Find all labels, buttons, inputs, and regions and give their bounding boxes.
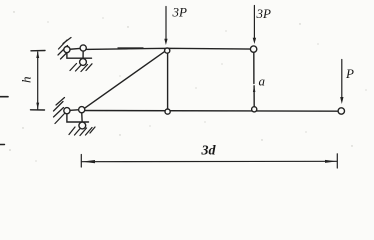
bottom support roller pin	[79, 122, 86, 129]
bottom support link wall pin to joint	[67, 110, 82, 111]
middle vertical member	[167, 50, 169, 112]
force arrow 3P left head	[164, 39, 167, 45]
node top middle	[165, 48, 170, 53]
top support joint pin	[80, 45, 86, 51]
dimension 3d left tick	[80, 155, 82, 168]
node top right	[250, 46, 256, 52]
small wedge on right vertical	[253, 86, 256, 92]
top support wall pin	[64, 47, 70, 53]
svg-text:3d: 3d	[201, 144, 217, 159]
bottom support wall pin	[64, 108, 70, 114]
dimension h arrow down	[36, 103, 39, 110]
svg-text:h: h	[19, 77, 34, 84]
dimension h shaft	[37, 52, 39, 109]
top support link joint to roller	[82, 48, 84, 62]
svg-text:P: P	[345, 66, 354, 81]
force arrow 3P left shaft	[165, 7, 167, 40]
scan dash left edge lower	[0, 144, 5, 146]
bottom support bracket L-line	[67, 111, 89, 122]
top chord	[84, 48, 254, 49]
dimension h bottom bar	[31, 109, 45, 111]
svg-text:3P: 3P	[172, 5, 188, 20]
dimension h arrow up	[36, 51, 39, 58]
dimension h top bar	[31, 50, 45, 52]
dimension 3d shaft	[82, 160, 338, 162]
bottom support link joint to roller	[81, 110, 84, 126]
node right end	[338, 108, 344, 114]
bottom chord	[82, 110, 341, 113]
dimension 3d right tick	[336, 154, 338, 168]
svg-text:a: a	[259, 74, 266, 89]
force arrow P head	[340, 97, 343, 104]
top support wall hatching	[58, 38, 71, 60]
dimension 3d left arrowhead	[82, 160, 95, 163]
top support ground hatching	[70, 64, 92, 72]
right vertical member (upper part)	[253, 49, 255, 84]
bottom support ground hatching	[69, 127, 95, 136]
top chord double-draw artifact	[118, 47, 143, 49]
top support bracket L-line	[67, 50, 92, 58]
top support link wall pin to joint	[67, 48, 83, 49]
node bottom of right vertical	[252, 107, 257, 112]
bottom support joint pin	[79, 107, 85, 113]
force arrow 3P right head	[253, 38, 256, 44]
scan speckle noise	[9, 11, 366, 161]
scan dash left edge upper	[0, 96, 8, 98]
dimension 3d right arrowhead	[325, 160, 337, 163]
bottom support wall hatching	[54, 98, 65, 124]
right vertical member (lower part)	[253, 86, 255, 109]
top support roller pin	[80, 59, 87, 66]
svg-text:3P: 3P	[256, 6, 272, 21]
force arrow 3P right shaft	[253, 6, 255, 39]
force arrow P shaft	[341, 60, 343, 99]
node bottom middle	[165, 109, 170, 114]
diagonal member	[82, 50, 167, 110]
